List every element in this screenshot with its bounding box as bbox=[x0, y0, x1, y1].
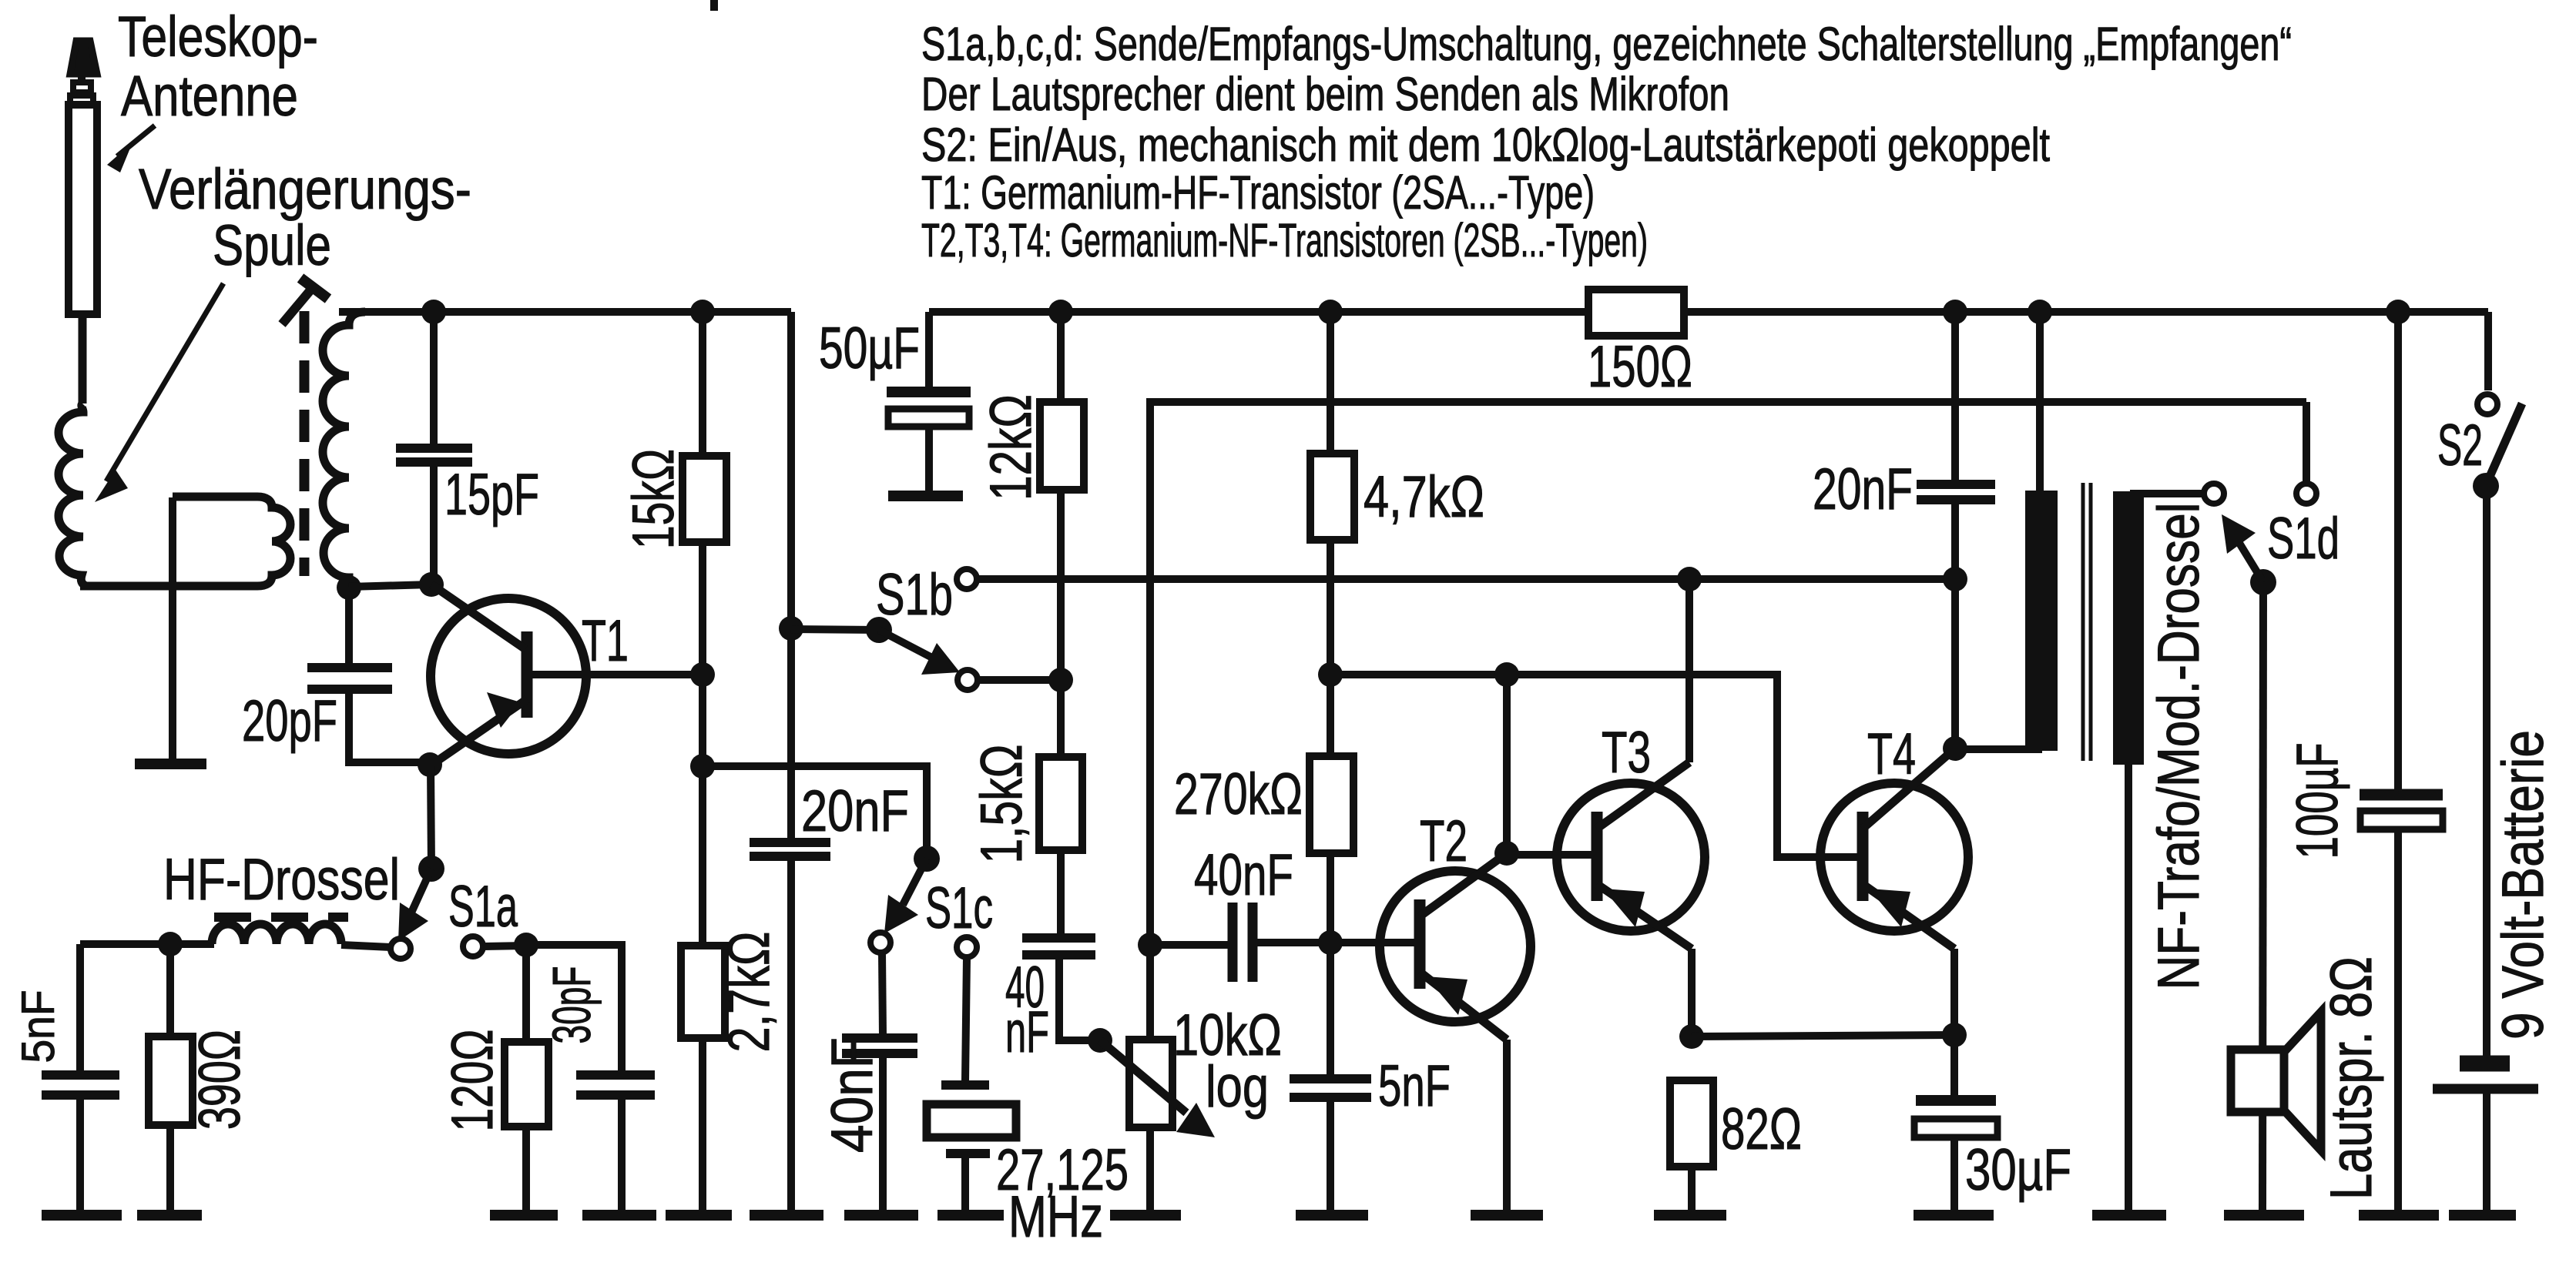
Verlaengerungsspule L1 bbox=[59, 404, 86, 586]
capacitor 5nF (T2 base) lead bbox=[1327, 943, 1334, 1077]
resistor 12kOhm bbox=[1040, 402, 1084, 490]
resistor 82Ohm bbox=[1670, 1080, 1713, 1167]
wire secondary bottom to ground bbox=[2125, 765, 2132, 1214]
capacitor 5nF lead bbox=[76, 944, 84, 1072]
ground (40nF S1c) bbox=[844, 1210, 918, 1221]
capacitor 30uF (electrolytic) bbox=[1914, 1100, 1997, 1214]
wire to S1c pole bbox=[703, 766, 927, 857]
node T2 collector bbox=[1494, 841, 1519, 866]
svg-text:log: log bbox=[1206, 1054, 1269, 1120]
wire rail corner to S2 bbox=[2484, 312, 2492, 390]
svg-text:390Ω: 390Ω bbox=[187, 1030, 253, 1130]
wire pot to ground bbox=[1146, 1127, 1154, 1214]
ground (100uF) bbox=[2359, 1210, 2439, 1221]
resistor 15kOhm lead bbox=[699, 312, 706, 456]
capacitor 50uF (electrolytic) bbox=[887, 392, 971, 496]
switch S1a moving contact node bbox=[418, 856, 444, 882]
wire top rail corner down to S1b pole bbox=[787, 312, 795, 842]
svg-text:Teleskop-: Teleskop- bbox=[118, 5, 318, 69]
switch S1c contact (crystal) bbox=[957, 937, 977, 957]
transistor T1 bbox=[431, 584, 703, 764]
node T2 base bbox=[1318, 930, 1343, 955]
wire coil-bottom to T1 collector node bbox=[349, 584, 431, 587]
wire secondary top to S1d contact bbox=[2130, 490, 2204, 497]
top rail (right section) bbox=[929, 308, 2488, 316]
ground stem of coupling loop bbox=[169, 497, 176, 762]
node trafo primary top on rail bbox=[2028, 300, 2052, 324]
crystal 27,125 MHz bbox=[927, 1085, 1016, 1214]
potentiometer 10kOhm log bbox=[1129, 1040, 1172, 1127]
resistor 12kOhm lead bbox=[1057, 312, 1065, 402]
ground (30uF) bbox=[1914, 1210, 1994, 1221]
svg-text:20nF: 20nF bbox=[1813, 457, 1913, 522]
wire node to 1,5k bbox=[1057, 680, 1065, 757]
wire S2 to battery bbox=[2483, 486, 2490, 1057]
switch S1b blade pivot bbox=[866, 617, 892, 643]
svg-text:20pF: 20pF bbox=[242, 688, 337, 754]
wire node to 30pF bbox=[526, 945, 622, 1072]
resistor 390Ohm lead bbox=[166, 944, 174, 1037]
top rail (left section) bbox=[339, 308, 791, 316]
wire 2,7k to ground bbox=[699, 1038, 706, 1214]
svg-text:S1b: S1b bbox=[876, 562, 953, 628]
svg-text:40nF: 40nF bbox=[820, 1037, 885, 1153]
HF-Drossel dashed line bbox=[214, 913, 348, 922]
ground (390) bbox=[137, 1210, 202, 1221]
wire T2 emitter to ground bbox=[1503, 1040, 1511, 1214]
svg-text:2,7kΩ: 2,7kΩ bbox=[716, 932, 782, 1053]
wire 1,5k to 40nF bbox=[1057, 850, 1065, 938]
resistor 120Ohm lead bbox=[522, 945, 530, 1042]
ground (120) bbox=[490, 1210, 558, 1221]
switch S1d blade bbox=[2222, 514, 2263, 582]
switch S1d blade pivot bbox=[2250, 569, 2276, 595]
svg-text:30µF: 30µF bbox=[1965, 1137, 2071, 1203]
capacitor 20pF lead bbox=[345, 588, 353, 667]
svg-text:1,5kΩ: 1,5kΩ bbox=[969, 745, 1035, 864]
switch S1b blade bbox=[879, 630, 960, 675]
capacitor 40nF (S1c) bbox=[842, 1038, 917, 1214]
svg-text:T2: T2 bbox=[1420, 809, 1467, 874]
svg-text:T4: T4 bbox=[1867, 722, 1916, 787]
wire T2 collector to T3 base bbox=[1507, 851, 1593, 859]
svg-text:5nF: 5nF bbox=[12, 990, 64, 1063]
ground (pot) bbox=[1110, 1210, 1181, 1221]
telescopic antenna ANT1 bbox=[69, 41, 97, 404]
capacitor 30uF lead bbox=[1950, 1035, 1958, 1097]
ground (2,7k) bbox=[666, 1210, 732, 1221]
trafo primary lead bbox=[2036, 312, 2044, 493]
loudspeaker Lautspr. 8 Ohm bbox=[2231, 1012, 2321, 1150]
wire node to series 40nF bbox=[1150, 941, 1228, 949]
dashed coupling line bbox=[300, 311, 310, 576]
capacitor 50uF lead bbox=[925, 312, 933, 390]
node S1c feed bbox=[690, 754, 715, 779]
svg-text:Antenne: Antenne bbox=[121, 64, 298, 128]
capacitor 20nF (T1 collector bypass) bbox=[750, 842, 830, 1214]
switch S1a blade bbox=[398, 869, 431, 941]
svg-text:9 Volt-Batterie: 9 Volt-Batterie bbox=[2490, 730, 2556, 1040]
switch S2 pivot node bbox=[2473, 473, 2499, 499]
pot wiper node bbox=[1088, 1028, 1112, 1053]
node on rail: 15k bbox=[690, 300, 715, 324]
resistor 120Ohm bbox=[505, 1042, 548, 1127]
wire S1b upper contact rail bbox=[977, 575, 1955, 583]
node 120/30p bbox=[514, 933, 538, 957]
ground (5nF) bbox=[42, 1210, 122, 1221]
resistor 1,5kOhm bbox=[1039, 757, 1082, 850]
NF-Trafo primary winding bbox=[2025, 491, 2058, 751]
resistor 390Ohm bbox=[149, 1037, 193, 1125]
ground (5nF T2) bbox=[1296, 1210, 1368, 1221]
node: 15pF / T1 collector bbox=[419, 572, 444, 597]
ground (T2 emitter) bbox=[1471, 1210, 1543, 1221]
wire T3 emitter down bbox=[1688, 949, 1696, 1037]
resistor 150Ohm (in rail) bbox=[1588, 290, 1684, 336]
wire 12k down to node bbox=[1057, 490, 1065, 680]
wire pot top bbox=[1146, 945, 1154, 1040]
node T1 base bbox=[690, 662, 715, 687]
node T4 emitter / 30uF bbox=[1942, 1023, 1967, 1047]
svg-text:NF-Trafo/Mod.-Drossel: NF-Trafo/Mod.-Drossel bbox=[2146, 503, 2212, 990]
wire base node down bbox=[699, 675, 706, 946]
svg-text:Verlängerungs-: Verlängerungs- bbox=[139, 157, 471, 221]
capacitor 100uF lead bbox=[2394, 312, 2402, 792]
svg-text:MHz: MHz bbox=[1008, 1184, 1103, 1250]
inductor HF-Drossel bbox=[212, 924, 341, 944]
arrow to antenna bbox=[107, 126, 155, 172]
wire S1b lower contact to 12k/1,5k node bbox=[978, 676, 1061, 684]
resistor 2,7kOhm bbox=[681, 946, 725, 1038]
wire S1a contact to 120/30p node bbox=[483, 946, 526, 946]
transistor T3 bbox=[1557, 762, 1705, 949]
capacitor 15pF lead bbox=[430, 312, 438, 445]
wire S1d pivot to speaker bbox=[2262, 582, 2263, 1214]
svg-text:T3: T3 bbox=[1602, 720, 1651, 785]
svg-text:15kΩ: 15kΩ bbox=[621, 449, 686, 549]
capacitor 30pF bbox=[576, 1075, 655, 1214]
ground (trafo) bbox=[2092, 1210, 2166, 1221]
node 20nF top on rail bbox=[1943, 300, 1967, 324]
ground (crystal) bbox=[937, 1210, 1004, 1221]
switch S1b fixed contact (upper) bbox=[957, 569, 977, 589]
resistor 4,7kOhm lead bbox=[1327, 312, 1334, 454]
switch S1a second contact bbox=[463, 936, 483, 956]
resistor 270kOhm bbox=[1310, 756, 1353, 853]
capacitor 15pF bbox=[396, 448, 472, 584]
svg-text:T1: T1 bbox=[582, 608, 629, 674]
svg-text:15pF: 15pF bbox=[444, 462, 539, 527]
antenna tank coil L2 bbox=[323, 312, 365, 588]
ground (82) bbox=[1654, 1210, 1726, 1221]
node: coil bottom / 20pF bbox=[337, 575, 361, 600]
switch S1c pole node bbox=[914, 846, 940, 872]
node T4 collector bbox=[1943, 736, 1967, 761]
ground (30pF) bbox=[582, 1210, 656, 1221]
svg-text:T1: Germanium-HF-Transistor (2: T1: Germanium-HF-Transistor (2SA...-Type… bbox=[921, 166, 1595, 219]
svg-text:Lautspr. 8Ω: Lautspr. 8Ω bbox=[2319, 956, 2384, 1200]
capacitor 100uF (electrolytic) bbox=[2360, 795, 2443, 1214]
wire T4 collector to trafo bbox=[1955, 745, 2042, 753]
node S1b rail end / 20nF bbox=[1943, 567, 1967, 591]
switch S1c blade bbox=[884, 859, 927, 933]
ground (speaker) bbox=[2224, 1210, 2304, 1221]
node 12k/1,5k bbox=[1048, 668, 1073, 692]
node 5nF/390 bbox=[158, 932, 183, 956]
NF-Trafo core bbox=[2081, 483, 2085, 761]
stray mark top edge bbox=[710, 0, 718, 11]
switch S1a contact (to HF-Drossel) bbox=[391, 939, 411, 959]
node pot top / 40nF series bbox=[1138, 933, 1162, 957]
bias rail to T4 base bbox=[1330, 675, 1859, 857]
svg-text:HF-Drossel: HF-Drossel bbox=[163, 847, 400, 913]
node 4,7k top on rail bbox=[1318, 300, 1343, 324]
svg-text:50µF: 50µF bbox=[819, 316, 920, 381]
node T3 emitter / 82 bbox=[1679, 1024, 1704, 1049]
switch S2 blade bbox=[2487, 404, 2522, 484]
switch S1d fixed contact (rail) bbox=[2296, 484, 2316, 504]
svg-text:nF: nF bbox=[1005, 1000, 1049, 1065]
emitter bus T3-T4 bbox=[1692, 1035, 1954, 1037]
wire S1b pole to blade pivot bbox=[791, 629, 879, 630]
wire T2 collector up to bias rail bbox=[1503, 675, 1511, 853]
node T3 collector / S1b rail bbox=[1677, 567, 1702, 591]
svg-text:S1d: S1d bbox=[2267, 506, 2340, 571]
node on rail: 15pF bbox=[421, 300, 446, 324]
node on rail: 12k bbox=[1048, 300, 1073, 324]
switch S1c contact (40nF) bbox=[870, 933, 891, 953]
transistor T4 bbox=[1820, 749, 1968, 949]
capacitor 40nF (oscillator) bbox=[1022, 938, 1100, 1040]
switch S1d contact (trafo) bbox=[2204, 484, 2224, 504]
wire S1d fixed contact up bbox=[2303, 402, 2310, 484]
svg-text:T2,T3,T4: Germanium-NF-Transis: T2,T3,T4: Germanium-NF-Transistoren (2SB… bbox=[921, 214, 1648, 266]
wire T3 collector to S1b rail bbox=[1685, 579, 1693, 762]
tuning arrow (variable coupling) bbox=[282, 278, 328, 324]
capacitor 20nF (T4 collector) lead bbox=[1951, 312, 1959, 483]
crystal lead bbox=[965, 957, 967, 1081]
capacitor 20nF (T4 collector) bbox=[1917, 484, 1995, 749]
svg-text:S1c: S1c bbox=[925, 876, 993, 941]
svg-text:82Ω: 82Ω bbox=[1721, 1097, 1802, 1162]
capacitor 20pF bbox=[307, 668, 430, 762]
svg-text:S1a: S1a bbox=[448, 874, 518, 939]
wire 270k to T2 base node bbox=[1327, 675, 1334, 756]
node T1 emitter / 20pF bbox=[418, 752, 442, 777]
node bias rail / T2 collector bbox=[1494, 662, 1519, 687]
node S1b pole bbox=[779, 616, 803, 641]
capacitor 40nF (series, to T2 base) bbox=[1233, 903, 1330, 982]
wire 4,7k down to bias node bbox=[1327, 540, 1334, 675]
NF-Trafo secondary winding bbox=[2113, 491, 2144, 765]
transistor T2 bbox=[1330, 853, 1531, 1040]
wire 82 to ground bbox=[1688, 1167, 1696, 1214]
svg-text:S1a,b,c,d: Sende/Empfangs-Umsc: S1a,b,c,d: Sende/Empfangs-Umschaltung, g… bbox=[921, 18, 2292, 70]
svg-text:150Ω: 150Ω bbox=[1588, 334, 1692, 400]
second rail (y522) bbox=[1150, 402, 2306, 945]
ground (coupling loop) bbox=[135, 759, 206, 769]
wire 15k to T1 base node bbox=[699, 542, 706, 675]
svg-text:S2: S2 bbox=[2437, 413, 2483, 478]
capacitor 5nF bbox=[42, 1075, 119, 1214]
wire HF-Drossel to S1a contact bbox=[341, 945, 391, 947]
wire HF-Drossel left node bbox=[80, 940, 214, 948]
wire T1 emitter down to S1a bbox=[431, 765, 431, 869]
svg-text:Spule: Spule bbox=[213, 213, 331, 277]
svg-text:100µF: 100µF bbox=[2285, 743, 2350, 859]
svg-text:12kΩ: 12kΩ bbox=[978, 394, 1044, 501]
svg-text:40nF: 40nF bbox=[1194, 842, 1293, 908]
ground (battery) bbox=[2449, 1210, 2516, 1221]
arrow to Verlaengerungsspule bbox=[95, 283, 223, 502]
capacitor 40nF (S1c) lead bbox=[882, 953, 883, 1037]
wire 390 to ground bbox=[166, 1125, 174, 1214]
node 100uF on rail bbox=[2386, 300, 2410, 324]
switch S2 contact bbox=[2477, 394, 2497, 414]
svg-text:120Ω: 120Ω bbox=[440, 1030, 505, 1132]
resistor 15kOhm bbox=[683, 456, 726, 542]
svg-text:30pF: 30pF bbox=[542, 966, 602, 1044]
battery 9V bbox=[2433, 1063, 2538, 1214]
svg-text:20nF: 20nF bbox=[801, 779, 909, 844]
switch S1b lower contact bbox=[958, 670, 978, 690]
node bias (4,7k/270k) bbox=[1318, 662, 1343, 687]
resistor 4,7kOhm bbox=[1310, 454, 1354, 540]
capacitor 5nF (T2 base) bbox=[1290, 1079, 1371, 1214]
pot wiper arrow bbox=[1100, 1040, 1215, 1137]
svg-text:Der Lautsprecher dient beim Se: Der Lautsprecher dient beim Senden als M… bbox=[921, 68, 1729, 120]
antenna coupling loop wire bbox=[80, 497, 290, 586]
svg-text:270kΩ: 270kΩ bbox=[1174, 762, 1303, 827]
ground (20nF bypass) bbox=[750, 1210, 823, 1221]
svg-text:5nF: 5nF bbox=[1378, 1053, 1451, 1119]
wire 120 to ground bbox=[522, 1127, 530, 1214]
svg-text:S2: Ein/Aus, mechanisch mit de: S2: Ein/Aus, mechanisch mit dem 10kΩlog-… bbox=[921, 119, 2050, 171]
wire T4 emitter down bbox=[1950, 949, 1958, 1035]
svg-text:4,7kΩ: 4,7kΩ bbox=[1363, 464, 1484, 530]
